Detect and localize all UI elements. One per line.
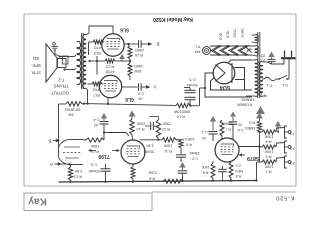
jack bus vertical wire — [259, 132, 261, 162]
svg-text:3.3K: 3.3K — [146, 144, 154, 148]
wire jack row to ground bus — [256, 162, 258, 181]
jack J-1 hook wire — [276, 158, 285, 163]
switch S-1 — [276, 78, 279, 80]
filter resistor R-14 800ohm 10W — [176, 103, 190, 107]
ground bus wire — [59, 181, 257, 183]
svg-text:C-5: C-5 — [189, 78, 195, 82]
svg-text:100K: 100K — [264, 150, 273, 154]
svg-text:2.2: 2.2 — [236, 164, 241, 168]
svg-text:800Ω10W: 800Ω10W — [173, 110, 190, 114]
svg-text:R-13: R-13 — [74, 174, 82, 178]
resistor R13 47 ohm — [89, 41, 94, 43]
T-1 6.3V winding — [255, 46, 258, 56]
svg-text:POWER: POWER — [237, 103, 252, 108]
resistor R16b — [129, 60, 131, 62]
wire R13 to transformer — [88, 42, 90, 55]
chassis ground on speaker lead — [53, 43, 56, 46]
svg-text:R-1: R-1 — [266, 170, 272, 174]
wire 5U4 top to transformer 5V winding — [229, 60, 253, 63]
grid resistor 180K of triode — [83, 139, 86, 141]
svg-text:7199: 7199 — [232, 29, 237, 39]
svg-text:10W: 10W — [134, 69, 142, 73]
svg-text:.02: .02 — [202, 136, 207, 140]
svg-text:R-9: R-9 — [236, 174, 242, 178]
svg-text:6L6: 6L6 — [218, 33, 223, 40]
pilot light P.L. — [203, 47, 211, 55]
svg-text:R17: R17 — [93, 93, 100, 97]
screen feed wire between 6L6s — [96, 56, 98, 75]
T-1 HV secondary winding — [255, 60, 258, 97]
resistor R17 47 ohm — [88, 83, 93, 85]
line bypass capacitor .05 — [268, 58, 276, 60]
heater winding entry into T-1 — [246, 47, 252, 53]
label 7199 with pointer arrows — [88, 149, 92, 152]
svg-text:5U4: 5U4 — [219, 84, 230, 90]
svg-text:.05: .05 — [261, 54, 266, 58]
screen resistor 250K — [156, 120, 160, 139]
svg-text:R-8: R-8 — [203, 170, 209, 174]
svg-text:R-10: R-10 — [137, 127, 145, 131]
svg-text:40mfd: 40mfd — [187, 83, 198, 87]
wire lower 6L6 plate to bus — [107, 98, 109, 104]
resistor R-1 100K input — [260, 161, 263, 163]
wire R16 bottom — [129, 59, 131, 63]
wire T-2 primary bottom to B+ bus — [86, 88, 88, 104]
svg-text:R-2: R-2 — [249, 121, 255, 125]
T-1 primary winding — [259, 62, 262, 97]
svg-text:R-14: R-14 — [177, 115, 185, 119]
svg-text:F-1: F-1 — [266, 83, 272, 87]
svg-text:J-1: J-1 — [290, 162, 295, 166]
wire and arrow to node B — [141, 43, 148, 45]
svg-text:C-3: C-3 — [91, 163, 97, 167]
wire lower 6L6 grid to coupling cap — [122, 86, 138, 88]
resistor R-3 100K input — [260, 146, 263, 148]
svg-text:TRANS.: TRANS. — [240, 98, 255, 103]
7199 triode internals — [64, 146, 80, 148]
wire T-2 primary top to upper 6L6 plate — [86, 26, 113, 35]
jack J-2 — [285, 141, 288, 153]
svg-text:C-9: C-9 — [138, 92, 144, 96]
tube V5 5U4 rectifier — [213, 62, 235, 84]
wire cathode node A — [62, 163, 70, 165]
svg-text:B: B — [156, 41, 159, 46]
wire node B feedback line — [58, 104, 60, 147]
svg-text:.02: .02 — [94, 123, 99, 127]
ground arrow at jack bus — [275, 121, 281, 127]
wire 5U4 left to bottom rail — [205, 73, 252, 97]
svg-text:R-15: R-15 — [106, 65, 114, 69]
wire plate row to R-11 — [140, 139, 162, 141]
speaker voice coil — [58, 59, 67, 68]
title block rule line — [152, 191, 296, 193]
svg-text:5879: 5879 — [247, 155, 259, 161]
feedback resistor R18 10K 2W — [59, 103, 67, 105]
resistor R15 470 ohm — [105, 59, 115, 63]
svg-text:1MEG: 1MEG — [245, 126, 256, 130]
jack J-1 — [285, 156, 288, 168]
heater chevrons — [211, 46, 219, 55]
svg-text:R-5: R-5 — [186, 143, 192, 147]
pentode cathode resistor — [132, 164, 134, 167]
tube V2 7199 pentode half — [121, 140, 145, 164]
svg-text:20: 20 — [262, 59, 266, 63]
svg-text:6L6: 6L6 — [225, 31, 230, 38]
svg-text:180K: 180K — [90, 144, 99, 148]
label 5879 with pointer — [239, 154, 243, 157]
svg-text:8Ω: 8Ω — [32, 56, 38, 61]
cathode bypass cap — [218, 168, 226, 170]
svg-text:220K: 220K — [136, 122, 145, 126]
B+ bus wire — [84, 104, 176, 106]
wire voice coil bottom to T-2 secondary — [65, 69, 75, 71]
svg-text:100K: 100K — [163, 144, 172, 148]
cathode resistor R-8 — [211, 163, 215, 179]
AC plug — [281, 57, 296, 59]
svg-text:MEG: MEG — [235, 169, 243, 173]
wire filter node vertical — [199, 88, 201, 106]
svg-text:50mfd: 50mfd — [89, 169, 100, 173]
svg-text:6L6: 6L6 — [120, 27, 129, 33]
svg-text:SPK.: SPK. — [31, 63, 41, 68]
svg-text:100K: 100K — [264, 135, 273, 139]
coupling capacitor C-7 — [138, 40, 140, 48]
tube V2 7199 triode half — [59, 139, 72, 147]
svg-text:C-4: C-4 — [94, 118, 100, 122]
capacitor C-4 .02 with ground arrow — [101, 113, 107, 119]
svg-text:2W: 2W — [68, 113, 74, 117]
wire upper 6L6 grid to coupling cap — [124, 43, 137, 45]
svg-text:R-6: R-6 — [149, 176, 155, 180]
T-1 5V winding — [255, 35, 258, 43]
svg-text:5879: 5879 — [240, 29, 245, 39]
svg-text:15″M.: 15″M. — [31, 70, 41, 75]
svg-text:R-11: R-11 — [164, 149, 172, 153]
svg-text:R-4: R-4 — [266, 140, 272, 144]
border frame of schematic sheet — [24, 14, 296, 186]
svg-text:R13: R13 — [94, 51, 101, 55]
screen cap C-6 — [230, 112, 236, 117]
resistor 1MEG vertical after R-11 — [179, 140, 183, 148]
svg-text:B: B — [48, 138, 51, 143]
svg-text:C-6: C-6 — [238, 128, 244, 132]
capacitor C-2 with ground arrow — [179, 162, 185, 168]
wire speaker to ground symbol — [54, 51, 56, 55]
svg-text:6L6: 6L6 — [125, 96, 134, 102]
svg-text:50mfd: 50mfd — [144, 149, 154, 153]
wire 5879 grid to jack network — [239, 146, 260, 148]
svg-text:.04: .04 — [138, 97, 143, 101]
svg-text:47Ω: 47Ω — [94, 46, 101, 50]
resistor R16a 250 ohm — [128, 44, 130, 46]
svg-text:5.6Ω: 5.6Ω — [148, 171, 156, 175]
svg-text:J-3: J-3 — [290, 132, 295, 136]
wire and arrow to node A — [141, 86, 146, 88]
capacitor 25mfd mid — [180, 148, 182, 154]
svg-text:P.L.: P.L. — [194, 45, 200, 49]
filter capacitor C-5 40mfd — [185, 89, 196, 91]
bus series resistor R-6 — [163, 179, 183, 183]
fuse F-1 — [262, 78, 264, 80]
svg-text:150Ω: 150Ω — [134, 64, 143, 68]
svg-text:K-520: K-520 — [276, 194, 295, 200]
svg-text:2.5K: 2.5K — [74, 169, 82, 173]
resistor R-2 1MEG with ground arrow — [256, 113, 263, 119]
svg-text:R-3: R-3 — [266, 155, 272, 159]
svg-text:250K: 250K — [162, 122, 171, 126]
svg-text:C-1: C-1 — [202, 130, 208, 134]
grid capacitor C-1 with arrow — [210, 116, 216, 122]
grid resistor R-9 — [229, 162, 233, 178]
svg-text:.02: .02 — [238, 123, 243, 127]
AC plug second conductor — [288, 59, 290, 79]
svg-text:T-2: T-2 — [58, 77, 65, 82]
AC line wire top — [267, 59, 284, 64]
svg-text:R-10: R-10 — [91, 150, 99, 154]
svg-text:J-2: J-2 — [290, 147, 295, 151]
svg-text:47Ω: 47Ω — [93, 88, 100, 92]
title block box — [24, 193, 152, 211]
speaker SPK 8 ohm 15in — [46, 44, 57, 82]
wire voice coil top to T-2 secondary — [60, 56, 75, 58]
coupling capacitor C-9 — [138, 83, 140, 91]
svg-text:S-1: S-1 — [282, 83, 288, 87]
tube V1 5879 — [215, 138, 239, 162]
svg-text:Kay: Kay — [28, 195, 47, 206]
plate load R-10 220K with B+ arrow — [129, 111, 136, 117]
wire 5U4 inner bottom rail — [211, 78, 253, 91]
output transformer T-2 primary winding — [83, 34, 86, 88]
cathode bypass capacitor C-3 50mfd — [101, 168, 111, 170]
svg-text:25mfd: 25mfd — [190, 151, 200, 155]
svg-text:T1: T1 — [260, 92, 266, 97]
HV center tap ground arrow — [256, 106, 265, 114]
svg-text:#44: #44 — [195, 50, 201, 54]
svg-text:1500: 1500 — [202, 165, 210, 169]
heater bus lines — [210, 45, 252, 47]
svg-text:TRANS.: TRANS. — [52, 84, 68, 89]
tube V4 6L6 lower — [99, 75, 121, 97]
wire 5U4 plates right bracket — [235, 68, 245, 91]
plate resistor above 5879 — [220, 120, 224, 136]
ground arrow at screen node — [121, 58, 123, 61]
resistor R-11 100K — [162, 138, 176, 142]
svg-text:470Ω: 470Ω — [105, 70, 114, 74]
svg-text:100K: 100K — [264, 165, 273, 169]
power transformer T-1 core — [257, 32, 259, 98]
jack J-3 — [285, 126, 288, 138]
svg-text:C-2: C-2 — [192, 157, 198, 161]
svg-text:R-12: R-12 — [162, 127, 170, 131]
svg-text:R-16: R-16 — [135, 53, 143, 57]
output transformer T-2 core — [81, 33, 83, 89]
svg-text:R-7: R-7 — [225, 127, 231, 131]
cathode resistor of triode — [68, 167, 72, 180]
tube V3 6L6 upper — [102, 34, 124, 56]
jack J-3 hook wire — [276, 128, 285, 133]
svg-text:250Ω: 250Ω — [135, 48, 144, 52]
screen network cap and resistor — [149, 116, 159, 118]
svg-text:OUTPUT: OUTPUT — [51, 90, 69, 95]
svg-text:Kay Model K520: Kay Model K520 — [153, 16, 193, 22]
resistor R-4 100K input — [260, 131, 263, 133]
svg-text:10K(R18): 10K(R18) — [65, 108, 80, 112]
jack J-2 hook wire — [276, 143, 285, 148]
output transformer T-2 secondary winding — [77, 41, 81, 84]
T-1 winding stubs — [252, 34, 256, 36]
svg-text:1MEG: 1MEG — [184, 137, 194, 141]
